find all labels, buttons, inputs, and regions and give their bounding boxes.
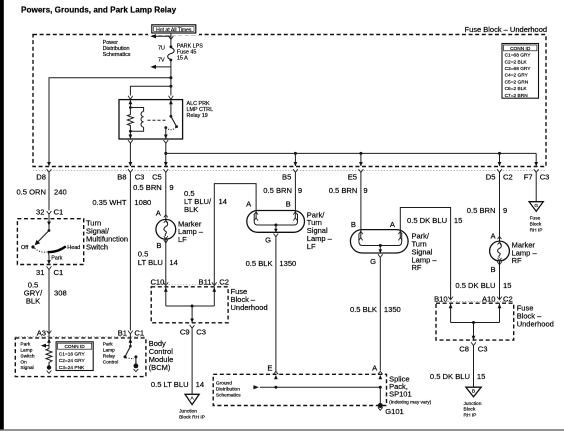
node junction to relay coil branch (169, 85, 172, 88)
wire C5 from relay down (165, 143, 167, 166)
svg-text:Off: Off (21, 245, 29, 251)
wire D5 to marker lamp RF (499, 172, 501, 241)
internal ground dot (47, 365, 51, 369)
svg-text:0.5 ORN: 0.5 ORN (16, 187, 46, 196)
park contact to output (48, 252, 51, 264)
svg-text:B: B (351, 220, 356, 229)
svg-text:C3=68 GRY: C3=68 GRY (505, 66, 532, 72)
svg-text:31: 31 (36, 268, 44, 277)
svg-text:Switch: Switch (86, 243, 108, 252)
junction block RH IP (A) triangle (185, 394, 199, 404)
svg-text:0.35 WHT: 0.35 WHT (92, 198, 127, 207)
svg-text:Park: Park (51, 256, 62, 262)
svg-text:C1=16 GRY: C1=16 GRY (59, 351, 86, 357)
park/turn signal lamp LF (247, 211, 305, 237)
wire from hot tag into fuse (170, 34, 172, 47)
marker lamp LF (156, 215, 176, 240)
svg-text:LF: LF (178, 235, 187, 244)
wire 0.5 ORN 240 (48, 172, 50, 210)
branch D5 (498, 152, 501, 155)
arrow to power distribution (bottom) (150, 65, 171, 69)
wire 0.5 DK BLU 15 to junction block (473, 346, 475, 388)
svg-text:BLK: BLK (184, 205, 198, 214)
connector B11 C2 (212, 282, 217, 285)
svg-text:Fuse: Fuse (530, 216, 541, 222)
svg-text:Block: Block (464, 407, 476, 413)
svg-text:RH IP: RH IP (530, 228, 543, 234)
branch F7 (535, 153, 537, 166)
svg-text:(BCM): (BCM) (149, 363, 171, 372)
relay switch common (170, 100, 172, 117)
svg-text:0.5 LT BLU: 0.5 LT BLU (151, 380, 189, 389)
svg-text:G: G (370, 257, 376, 266)
svg-text:15 A: 15 A (177, 55, 188, 61)
splice line (253, 385, 259, 389)
wire 0.35 WHT 1060 from B8 to B1 (129, 172, 131, 330)
wire branch to relay coil pin (130, 86, 171, 95)
svg-text:C3: C3 (196, 327, 206, 336)
svg-text:15: 15 (477, 372, 485, 381)
svg-text:C3: C3 (135, 172, 145, 181)
svg-text:9: 9 (169, 183, 173, 192)
bus from relay output to F7 (164, 152, 167, 155)
svg-text:B5: B5 (282, 172, 291, 181)
signal arrow left (43, 345, 50, 347)
svg-text:LF: LF (307, 242, 316, 251)
svg-text:(Indexing may vary): (Indexing may vary) (389, 400, 432, 406)
svg-text:C2=2 BLK: C2=2 BLK (505, 59, 528, 65)
wire 0.5 BLK 1350 (LF ground) (275, 237, 277, 372)
relay coil branch entry arrow (129, 100, 131, 108)
turn signal / multifunction switch (17, 219, 83, 265)
svg-text:9: 9 (503, 206, 507, 215)
svg-text:15: 15 (503, 281, 511, 290)
svg-text:0.5 BRN: 0.5 BRN (467, 206, 496, 215)
svg-text:0.5 BRN: 0.5 BRN (263, 186, 292, 195)
wire 0.5 LT BLU 14 to junction block (191, 328, 193, 394)
internal resistor (46, 349, 52, 366)
svg-text:C2: C2 (503, 294, 513, 303)
svg-text:C9: C9 (180, 327, 190, 336)
ground distribution box (213, 374, 386, 405)
ground G101 (378, 403, 383, 408)
svg-text:Underhood: Underhood (231, 303, 268, 312)
svg-text:C2=24 GRY: C2=24 GRY (59, 358, 86, 364)
BCM switch arm (125, 346, 130, 357)
Hot at All Times tag (152, 25, 196, 34)
svg-text:C4=2 GRY: C4=2 GRY (505, 73, 529, 79)
wire 0.5 GRY/BLK 308 (48, 270, 50, 334)
svg-text:0.5 BLK: 0.5 BLK (350, 305, 377, 314)
bottom frame line (0, 429, 564, 430)
svg-text:Relay 19: Relay 19 (187, 113, 208, 119)
wire 0.5 LT BLU 14 (165, 239, 167, 285)
svg-text:14: 14 (196, 380, 204, 389)
body control module box (15, 338, 146, 377)
left black margin bar (0, 0, 4, 430)
svg-text:308: 308 (54, 288, 67, 297)
svg-text:E: E (267, 364, 272, 373)
wire 0.5 LT BLU/BLK 14 from park/turn LF A to B11 (214, 184, 256, 286)
svg-text:C7=2 BRN: C7=2 BRN (505, 93, 529, 99)
svg-text:D8: D8 (36, 172, 46, 181)
svg-text:1350: 1350 (279, 259, 296, 268)
wire branch left at y=77.8 (49, 78, 171, 162)
svg-text:G: G (534, 203, 538, 209)
D8 arrow at border (47, 162, 51, 166)
switch arm toward Off (36, 231, 49, 244)
forks below fuse block border (47, 169, 52, 172)
svg-text:RF: RF (512, 256, 522, 265)
fuse block underhood (bottom right) (436, 303, 514, 340)
svg-text:C8: C8 (459, 344, 469, 353)
arrow to power distribution (top) (150, 34, 171, 38)
wire B8 from relay to BCM (129, 143, 131, 166)
svg-text:Junction: Junction (179, 408, 197, 414)
connector 32 C1 (47, 211, 52, 214)
svg-text:Underhood: Underhood (517, 320, 554, 329)
svg-text:Park: Park (20, 342, 30, 348)
svg-text:1080: 1080 (134, 198, 151, 207)
svg-text:C6=2 BLK: C6=2 BLK (505, 86, 528, 92)
relay coil winding (130, 108, 143, 132)
svg-text:Schematics: Schematics (216, 392, 241, 398)
svg-text:Powers, Grounds, and Park Lamp: Powers, Grounds, and Park Lamp Relay (21, 6, 177, 15)
svg-text:0.5 DK BLU: 0.5 DK BLU (430, 372, 470, 381)
svg-text:B1: B1 (118, 329, 127, 338)
fuse block underhood (top dashed box) (33, 23, 546, 167)
svg-text:14: 14 (169, 258, 177, 267)
svg-text:15: 15 (454, 216, 462, 225)
svg-text:B: B (472, 389, 475, 395)
wire 0.5 DK BLU 15 from RF A to B10 (400, 208, 450, 300)
svg-text:Fuse Block – Underhood: Fuse Block – Underhood (465, 25, 548, 34)
svg-text:C5: C5 (152, 172, 162, 181)
relay coil exit wire (129, 131, 131, 139)
svg-text:0.5 BLK: 0.5 BLK (246, 259, 273, 268)
svg-text:0.5 BRN: 0.5 BRN (329, 186, 358, 195)
connector line under fuse block (33, 169, 546, 171)
fork above relay left pin (128, 96, 133, 99)
fork below border (169, 36, 174, 39)
svg-text:C3: C3 (540, 172, 550, 181)
svg-text:Lamp: Lamp (103, 348, 115, 354)
relay linkage dashed (148, 119, 168, 121)
svg-text:0.5 DK BLU: 0.5 DK BLU (407, 216, 447, 225)
fork above relay right pin (169, 96, 174, 99)
svg-text:1350: 1350 (384, 305, 401, 314)
wire E5 to park/turn RF (360, 172, 362, 231)
svg-text:E5: E5 (348, 172, 357, 181)
park/turn signal lamp RF (350, 230, 408, 258)
wire 0.5 BLK 1350 (RF ground) (379, 257, 381, 370)
fuse block underhood (middle) (151, 287, 228, 323)
svg-text:G: G (265, 235, 271, 244)
svg-text:B: B (491, 265, 496, 274)
svg-text:On: On (20, 359, 27, 365)
connector B10 / A10 C2 (448, 297, 453, 300)
wire 0.5 BRN 9 (C5) to marker lamp LF (165, 172, 167, 219)
wire B5 to park/turn LF (294, 172, 296, 212)
marker lamp RF (490, 236, 510, 261)
relay ALC PRK LMP CTRL Relay 19 (119, 100, 183, 139)
forks below relay (128, 140, 133, 143)
branch B5 (294, 152, 297, 155)
svg-text:C2: C2 (503, 172, 513, 181)
svg-text:SP101: SP101 (389, 390, 412, 399)
relay coil resistor (127, 108, 133, 132)
svg-text:RH IP: RH IP (464, 413, 477, 419)
svg-text:B: B (156, 241, 161, 250)
svg-text:Distribution: Distribution (216, 387, 240, 393)
svg-text:7V: 7V (158, 57, 165, 63)
svg-text:Hot at All Times: Hot at All Times (156, 28, 192, 34)
CONN ID table (fuse block underhood) (502, 44, 539, 99)
svg-text:F7: F7 (524, 172, 533, 181)
wire 0.5 DK BLU 15 (marker RF) (499, 261, 501, 300)
svg-text:B: B (286, 200, 291, 209)
fuse block RH IP (G) triangle (529, 202, 543, 212)
svg-text:14: 14 (219, 197, 227, 206)
fuse PARK LPS Fuse 45 15A (168, 45, 174, 61)
svg-text:G101: G101 (385, 407, 404, 416)
svg-text:C3: C3 (478, 344, 488, 353)
connector A3 (47, 331, 52, 334)
svg-text:Park: Park (103, 342, 113, 348)
svg-text:C5=2 GRN: C5=2 GRN (505, 79, 529, 85)
relay switch travel arc (166, 127, 177, 130)
svg-text:Ground: Ground (216, 381, 232, 387)
svg-text:0.5: 0.5 (138, 249, 149, 258)
svg-text:LT BLU: LT BLU (138, 258, 163, 267)
svg-text:C1: C1 (54, 268, 64, 277)
svg-text:BLK: BLK (26, 296, 40, 305)
relay output contact (164, 126, 167, 129)
svg-text:C3=24 PNK: C3=24 PNK (59, 365, 85, 371)
svg-text:CONN ID: CONN ID (510, 46, 531, 52)
svg-text:240: 240 (54, 187, 67, 196)
svg-text:Block: Block (530, 222, 542, 228)
junction block RH IP (B) triangle (466, 387, 481, 397)
svg-text:B8: B8 (117, 172, 126, 181)
svg-text:C1=68 GRY: C1=68 GRY (505, 53, 532, 59)
svg-text:Junction: Junction (464, 401, 482, 407)
svg-text:Control: Control (103, 359, 118, 365)
svg-text:D5: D5 (486, 172, 496, 181)
svg-text:Lamp: Lamp (20, 348, 32, 354)
node junction to D8 branch (169, 76, 172, 79)
svg-text:9: 9 (363, 186, 367, 195)
svg-text:9: 9 (298, 186, 302, 195)
svg-text:C1: C1 (134, 329, 144, 338)
relay switch arm (171, 116, 177, 126)
svg-text:0.5 BRN: 0.5 BRN (133, 183, 162, 192)
connector B1 C1 (128, 331, 133, 334)
svg-text:Switch: Switch (20, 353, 34, 359)
dotted travel arc (35, 248, 48, 252)
wire F7 to fuse block RH IP (535, 172, 537, 201)
CONN ID table (BCM) (56, 342, 93, 371)
head range thick arc (48, 246, 66, 252)
branch E5 (359, 152, 362, 155)
svg-text:RF: RF (412, 263, 422, 272)
svg-text:Block RH IP: Block RH IP (179, 414, 205, 420)
connector C10 (163, 282, 168, 285)
svg-text:7U: 7U (158, 46, 165, 52)
svg-text:0.5 DK BLU: 0.5 DK BLU (455, 281, 495, 290)
entry arrow A3 (47, 339, 51, 343)
svg-text:32: 32 (36, 208, 44, 217)
svg-text:C1: C1 (54, 208, 64, 217)
wire below fuse (170, 60, 172, 96)
svg-text:Signal: Signal (20, 365, 33, 371)
svg-text:Head: Head (67, 245, 80, 251)
svg-text:CONN ID: CONN ID (64, 344, 85, 350)
svg-text:Relay: Relay (103, 353, 116, 359)
svg-text:Schematics: Schematics (103, 52, 131, 58)
